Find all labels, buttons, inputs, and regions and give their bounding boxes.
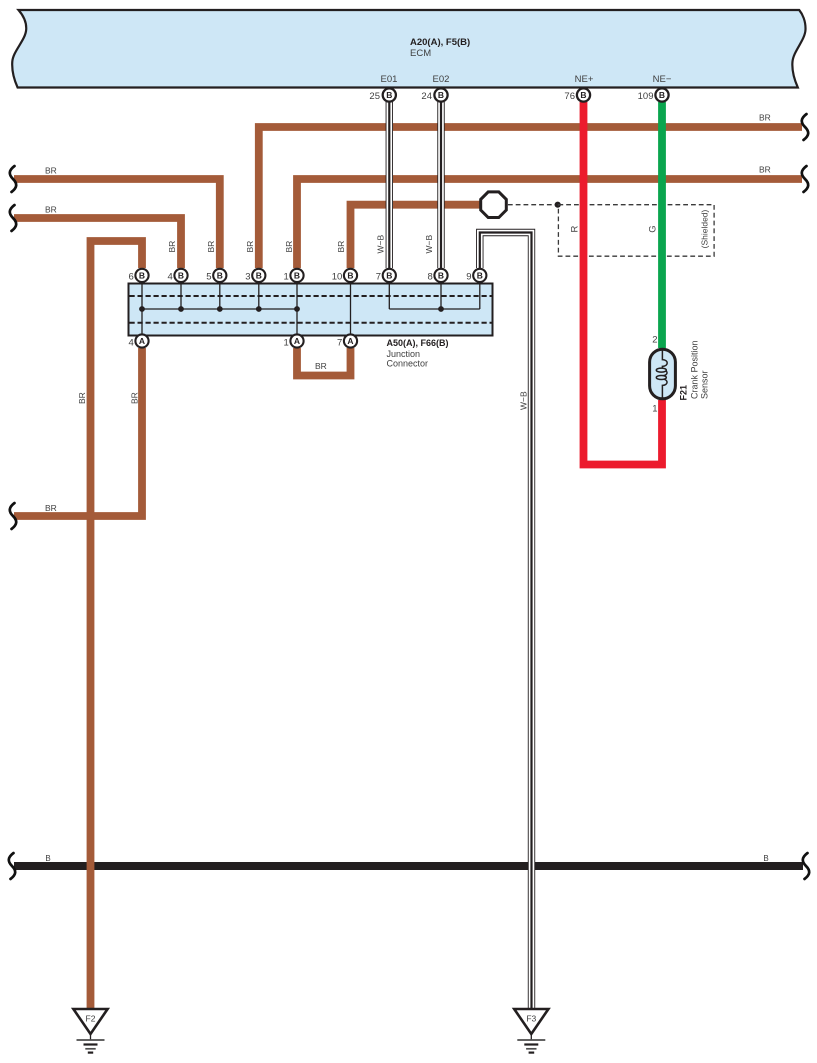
svg-text:B: B <box>386 90 392 100</box>
ECM pin 24 B <box>434 88 447 101</box>
svg-text:BR: BR <box>315 361 327 371</box>
svg-text:109: 109 <box>638 91 654 102</box>
junction pin 10 B <box>344 269 357 282</box>
svg-text:B: B <box>347 270 353 280</box>
svg-text:A50(A), F66(B): A50(A), F66(B) <box>387 338 449 348</box>
svg-text:W−B: W−B <box>424 235 434 254</box>
svg-text:NE−: NE− <box>653 74 672 85</box>
svg-text:E01: E01 <box>381 74 398 85</box>
svg-text:Crank Position: Crank Position <box>690 340 700 399</box>
shield node dot <box>555 202 561 208</box>
wire BR junction pin 4A down then left to break <box>14 348 142 516</box>
wire break symbols <box>9 114 809 879</box>
svg-text:B: B <box>763 854 768 863</box>
wire R (red) ECM NE+ to sensor pin 1 <box>584 102 663 465</box>
junction pin 4 B <box>174 269 187 282</box>
svg-text:7: 7 <box>376 272 381 283</box>
svg-text:G: G <box>648 225 659 232</box>
svg-text:8: 8 <box>428 272 433 283</box>
junction pin 6 B <box>135 269 148 282</box>
svg-text:10: 10 <box>332 272 343 283</box>
ECM pin 76 B <box>577 88 590 101</box>
junction pin 5 B <box>213 269 226 282</box>
shield dashed lead <box>508 204 558 206</box>
wire BR junction pin 1 up and right to break <box>297 179 802 268</box>
junction connector dashed bus rails <box>130 296 492 323</box>
svg-text:B: B <box>386 270 392 280</box>
junction connector internal bus junction dots <box>139 306 444 312</box>
break right y866 <box>803 853 809 879</box>
svg-text:76: 76 <box>564 91 575 102</box>
junction pin 7 A <box>344 334 357 347</box>
svg-text:BR: BR <box>45 503 57 513</box>
svg-text:B: B <box>438 270 444 280</box>
wire G (green) ECM NE- to sensor pin 2 <box>658 102 666 348</box>
svg-text:W−B: W−B <box>519 391 529 410</box>
wire W-B junction pin 9 over and down to ground F3 <box>480 233 532 1009</box>
label Crank Position Sensor <box>690 340 710 399</box>
svg-text:BR: BR <box>206 241 216 253</box>
svg-text:B: B <box>294 270 300 280</box>
svg-text:6: 6 <box>129 272 134 283</box>
break left y179 <box>10 166 16 192</box>
junction pin 8 B <box>434 269 447 282</box>
svg-text:1: 1 <box>652 404 657 415</box>
junction pin 4 A <box>135 334 148 347</box>
junction pin 9 B <box>473 269 486 282</box>
junction pin 3 B <box>252 269 265 282</box>
svg-text:W−B: W−B <box>376 235 386 254</box>
svg-text:B: B <box>256 270 262 280</box>
ECM pin 25 B <box>383 88 396 101</box>
svg-text:B: B <box>477 270 483 280</box>
svg-text:5: 5 <box>206 272 211 283</box>
svg-text:BR: BR <box>45 205 57 215</box>
wire W-B ECM E01 to junction pin 7 <box>386 102 393 268</box>
svg-text:Connector: Connector <box>387 359 429 369</box>
svg-text:A: A <box>139 336 145 346</box>
svg-text:BR: BR <box>45 166 57 176</box>
svg-text:BR: BR <box>130 392 140 404</box>
svg-text:B: B <box>438 90 444 100</box>
wire BR ground run with bridge to junction pin 6 <box>91 241 143 1008</box>
shield drain octagon <box>481 192 507 218</box>
svg-text:B: B <box>217 270 223 280</box>
svg-text:BR: BR <box>167 241 177 253</box>
svg-text:BR: BR <box>284 241 294 253</box>
ground F2 <box>73 1009 107 1053</box>
svg-text:NE+: NE+ <box>575 74 594 85</box>
svg-text:A20(A), F5(B): A20(A), F5(B) <box>410 37 470 48</box>
svg-text:A: A <box>294 336 300 346</box>
svg-text:B: B <box>178 270 184 280</box>
svg-text:E02: E02 <box>433 74 450 85</box>
svg-text:Junction: Junction <box>387 349 421 359</box>
svg-text:B: B <box>659 90 665 100</box>
wire B ground bus (black) <box>14 862 803 870</box>
svg-text:24: 24 <box>421 91 432 102</box>
junction connector internal column wires <box>142 285 480 335</box>
svg-text:F2: F2 <box>86 1014 96 1024</box>
break left y516 <box>10 503 16 529</box>
break right y179 <box>802 166 808 192</box>
label Junction Connector <box>387 349 429 369</box>
junction pin 1 B <box>290 269 303 282</box>
junction pin 1 A <box>290 334 303 347</box>
break left y218 <box>10 205 16 231</box>
wire BR left break to junction pin 4 <box>14 218 181 268</box>
svg-text:25: 25 <box>369 91 380 102</box>
sensor F21 crank position sensor body <box>650 349 676 399</box>
svg-text:9: 9 <box>466 272 471 283</box>
svg-text:R: R <box>570 225 581 232</box>
svg-text:7: 7 <box>337 338 342 349</box>
shield dashed box <box>558 205 714 257</box>
svg-text:4: 4 <box>129 338 134 349</box>
wire BR junction pin 3 up and right to break <box>259 127 802 268</box>
break right y127 <box>802 114 808 140</box>
brown wires <box>14 127 802 1008</box>
svg-text:A: A <box>347 336 353 346</box>
svg-text:1: 1 <box>284 272 289 283</box>
svg-text:(Shielded): (Shielded) <box>700 209 710 248</box>
svg-text:BR: BR <box>759 165 771 175</box>
svg-text:B: B <box>45 854 50 863</box>
wire W-B ECM E02 to junction pin 8 <box>437 102 444 268</box>
ECM pin 109 B <box>655 88 668 101</box>
svg-text:F3: F3 <box>526 1014 536 1024</box>
junction pin 7 B <box>383 269 396 282</box>
ECM block A20(A), F5(B) <box>12 10 805 88</box>
sensor coil element <box>656 350 667 398</box>
wire BR left break to junction pin 5 <box>14 179 220 268</box>
wire BR U-link junction pin 1A to pin 7A <box>297 348 351 376</box>
break left y866 <box>9 853 15 879</box>
svg-text:ECM: ECM <box>410 48 431 59</box>
ground F3 <box>514 1009 548 1053</box>
svg-text:BR: BR <box>759 113 771 123</box>
junction connector A50(A), F66(B) body <box>129 284 493 336</box>
svg-text:1: 1 <box>284 338 289 349</box>
svg-text:3: 3 <box>245 272 250 283</box>
svg-text:BR: BR <box>336 241 346 253</box>
svg-text:Sensor: Sensor <box>700 370 710 399</box>
svg-text:B: B <box>139 270 145 280</box>
wire BR junction pin 10 to shield octagon <box>351 205 486 268</box>
svg-text:BR: BR <box>77 392 87 404</box>
svg-text:4: 4 <box>168 272 173 283</box>
svg-text:2: 2 <box>652 335 657 346</box>
svg-text:B: B <box>580 90 586 100</box>
svg-text:F21: F21 <box>679 385 689 401</box>
svg-text:BR: BR <box>245 241 255 253</box>
